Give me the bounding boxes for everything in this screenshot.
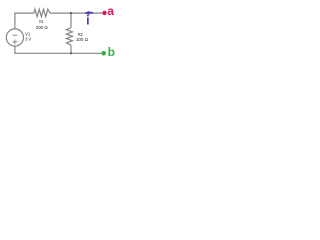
junction dot bottom xyxy=(70,52,72,54)
plus sign xyxy=(13,41,18,43)
svg-text:a: a xyxy=(107,4,114,18)
voltage source V1 xyxy=(6,29,23,46)
svg-text:i: i xyxy=(86,13,89,27)
svg-text:200 Ω: 200 Ω xyxy=(36,25,49,30)
wire top-left (source top to R1) xyxy=(15,13,34,29)
wire bottom (source bottom to terminal b) xyxy=(15,46,102,53)
junction dot top xyxy=(70,12,72,14)
wire R2 bottom lead xyxy=(70,45,72,53)
current arrow i xyxy=(84,11,89,15)
svg-text:100 Ω: 100 Ω xyxy=(76,37,89,42)
resistor R2 xyxy=(66,28,72,46)
wire R1 to terminal a xyxy=(50,12,102,14)
resistor R1 xyxy=(34,9,50,17)
terminal a dot xyxy=(102,11,106,15)
terminal b dot xyxy=(101,51,106,56)
minus sign xyxy=(13,34,18,36)
svg-text:3 V: 3 V xyxy=(25,37,32,42)
wire R2 top lead xyxy=(70,13,72,28)
svg-text:R1: R1 xyxy=(39,19,44,24)
svg-text:b: b xyxy=(108,45,115,59)
